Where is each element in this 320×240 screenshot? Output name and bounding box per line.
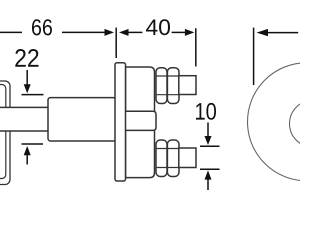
dim 22: top tick [22, 94, 44, 96]
dim 40: left arrowhead [119, 29, 129, 36]
dim 10: up arrow shaft [207, 179, 209, 190]
dim 22: down arrowhead [24, 84, 31, 93]
dim 40: line right segment [172, 31, 186, 33]
switch body [126, 67, 155, 178]
dim 10: label [196, 103, 216, 120]
stud end bottom [179, 148, 196, 168]
dim 10: down arrowhead [205, 136, 212, 145]
dim 40: label [146, 19, 170, 35]
terminal stud bottom: nut 1 [156, 140, 167, 177]
stud end top [179, 76, 196, 95]
extension line at flange [115, 28, 117, 58]
right dim: extension line [253, 28, 255, 85]
terminal stud bottom: nut 2 [167, 140, 179, 177]
extension line at stud end [195, 28, 197, 66]
centre boss [125, 111, 157, 130]
dim 40: line left segment [128, 31, 142, 33]
dim 22: down arrow shaft [26, 70, 28, 85]
barrel cylinder [48, 98, 116, 141]
dim 10: down arrow shaft [207, 123, 209, 138]
nut flats lines top [157, 75, 179, 77]
dim 10: bottom tick [200, 168, 220, 170]
dim 22: up arrowhead [24, 146, 31, 155]
right dim: line [267, 32, 298, 34]
dim 10: top tick [200, 145, 220, 147]
terminal stud top: nut 1 [156, 68, 167, 104]
dim 22: bottom tick [22, 143, 44, 145]
front view outer circle [248, 63, 320, 181]
right dim: left arrowhead [257, 29, 269, 36]
dim 22: label [15, 49, 38, 67]
key head outer outline [0, 81, 10, 185]
dim 66: line right segment [62, 31, 105, 33]
dim 40: right arrowhead [185, 29, 195, 36]
front view inner circle [290, 100, 320, 147]
dim 22: up arrow shaft [26, 155, 28, 165]
mounting flange [115, 63, 126, 181]
terminal stud top: nut 2 [167, 68, 179, 104]
key head inner outline [0, 85, 6, 179]
dim 66: right arrowhead [105, 29, 115, 36]
dim 10: up arrowhead [205, 170, 212, 179]
dim 66: label [32, 19, 52, 35]
nut flats lines bottom [157, 148, 179, 150]
dim 66: line left segment [0, 31, 22, 33]
key shaft [0, 107, 49, 131]
